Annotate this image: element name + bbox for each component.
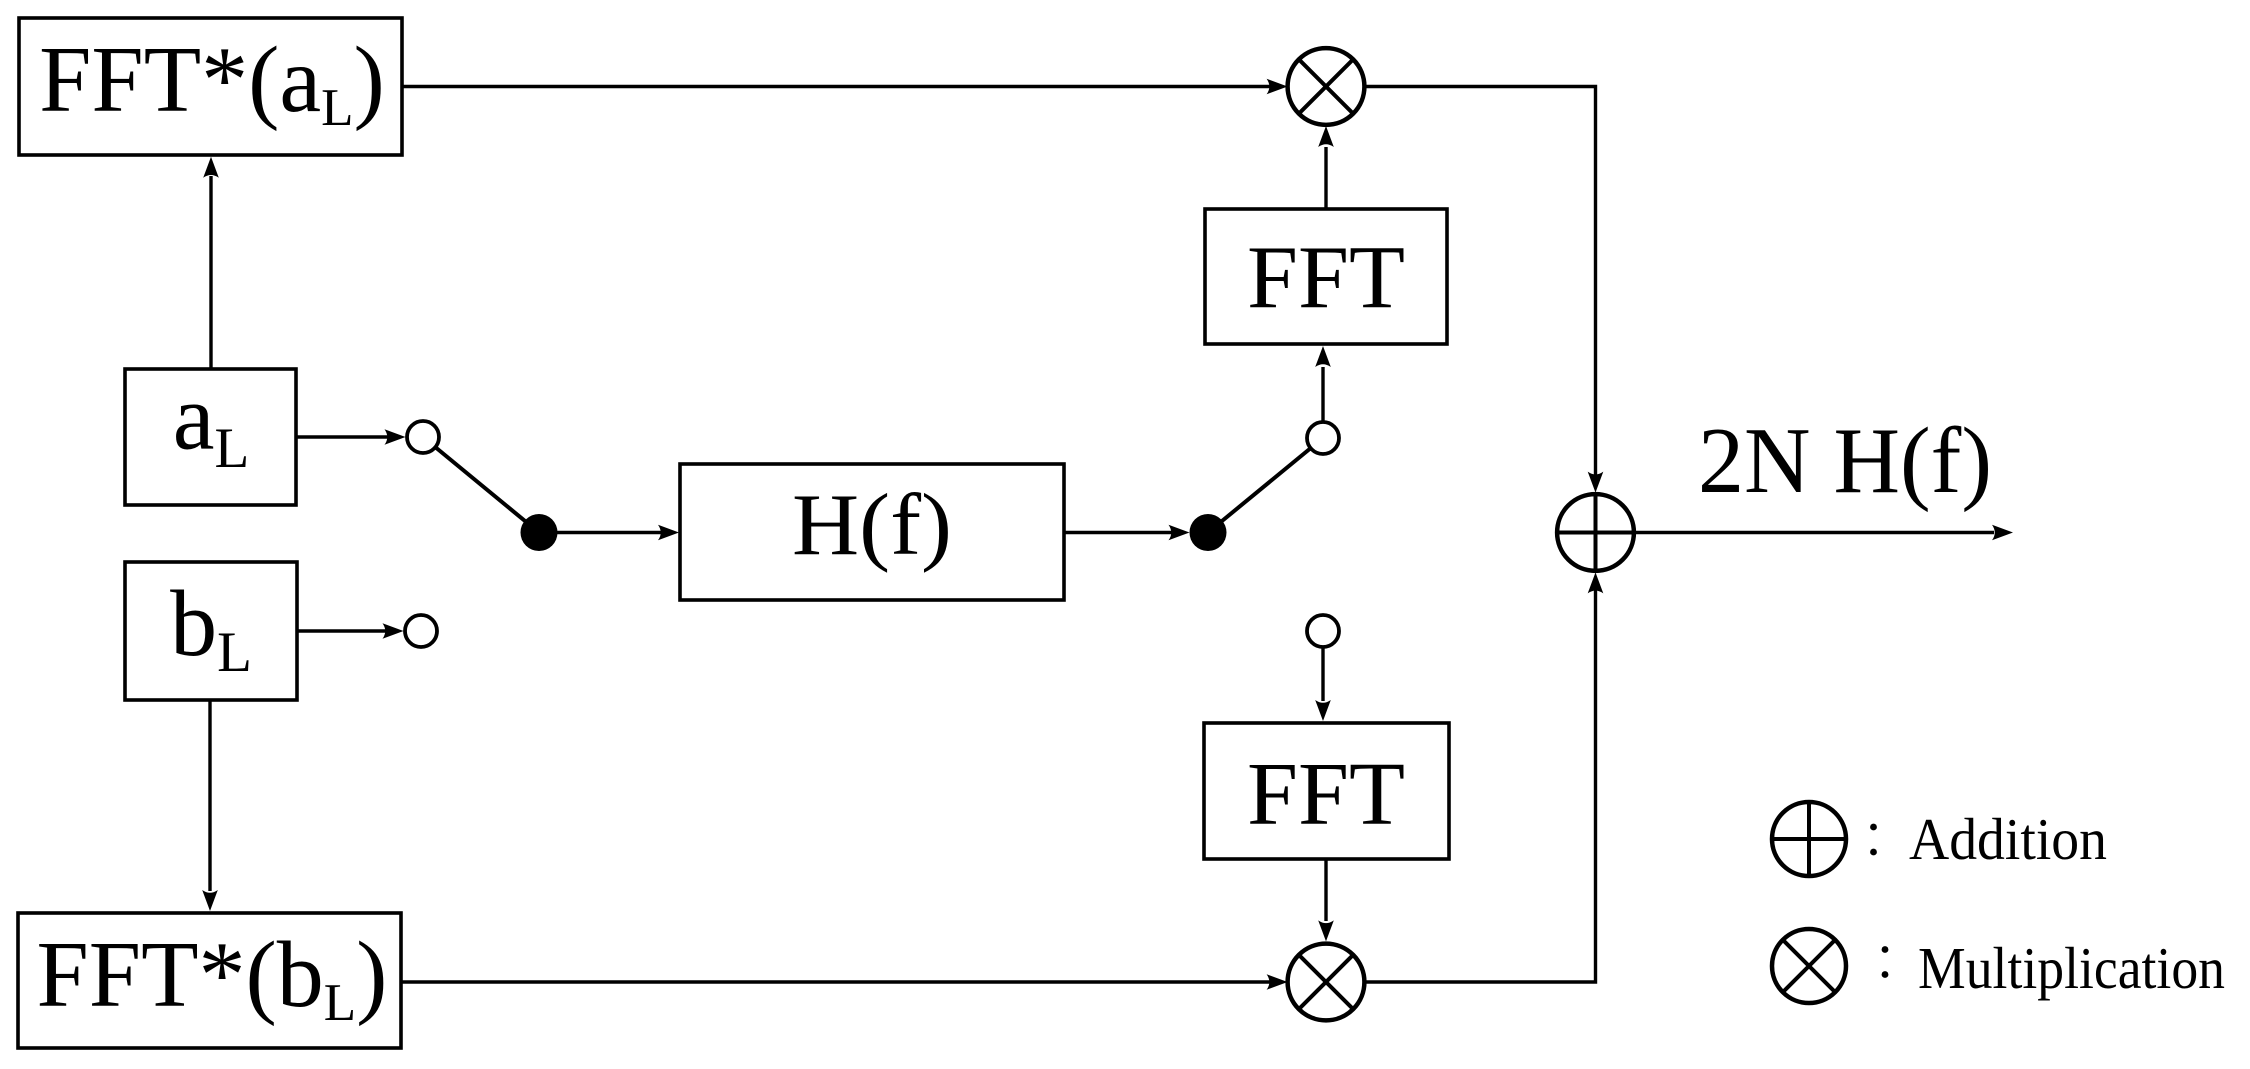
switch lever left [423, 437, 539, 533]
block aL [125, 366, 296, 506]
multiplier M1 [1288, 48, 1365, 125]
switch terminal B (open) [1307, 422, 1339, 454]
wire M1 to adder S1 [1364, 87, 1603, 493]
wire pole to H(f) [539, 525, 679, 541]
legend colon for Multiplication [1882, 946, 1889, 978]
wire adder S1 output [1634, 525, 2013, 541]
wire aL to switch terminal A [296, 429, 406, 445]
wire H(f) to right pole [1064, 525, 1190, 541]
wire FFT upper to multiplier M1 [1318, 126, 1334, 209]
legend colon for Addition [1870, 824, 1877, 856]
wire bL to FFT*(bL) [202, 700, 218, 911]
block FFT*(bL) [18, 913, 401, 1048]
legend multiplier symbol [1772, 929, 1846, 1003]
wire M2 to adder S1 [1364, 572, 1603, 982]
adder S1 [1557, 494, 1634, 571]
svg-text:Addition: Addition [1909, 806, 2107, 872]
switch terminal D (open) [405, 615, 437, 647]
switch pole right (filled) [1190, 514, 1227, 551]
legend adder symbol [1772, 802, 1846, 876]
svg-text:FFT: FFT [1247, 229, 1405, 328]
block FFT*(aL) [19, 18, 402, 155]
block FFT upper [1205, 209, 1447, 344]
switch terminal C (open) [1307, 615, 1339, 647]
svg-text:2N H(f): 2N H(f) [1698, 409, 1992, 513]
wire FFT lower to multiplier M2 [1318, 859, 1334, 941]
wire terminal C to FFT lower [1315, 647, 1331, 721]
wire FFT*(bL) to multiplier M2 [401, 974, 1288, 990]
block bL [125, 562, 297, 700]
svg-text:Multiplication: Multiplication [1918, 935, 2225, 1001]
block H(f) [680, 464, 1064, 600]
wire terminal B to FFT upper [1315, 346, 1331, 422]
wire aL to FFT*(aL) [203, 157, 219, 369]
switch terminal A (open) [407, 421, 439, 453]
switch pole left (filled) [521, 514, 558, 551]
multiplier M2 [1288, 944, 1365, 1021]
svg-text:FFT: FFT [1247, 745, 1405, 844]
block FFT lower [1204, 723, 1449, 859]
switch lever right [1208, 438, 1323, 533]
svg-text:H(f): H(f) [792, 477, 952, 574]
wire FFT*(aL) to multiplier M1 [402, 79, 1288, 95]
wire bL to switch terminal D [297, 623, 404, 639]
